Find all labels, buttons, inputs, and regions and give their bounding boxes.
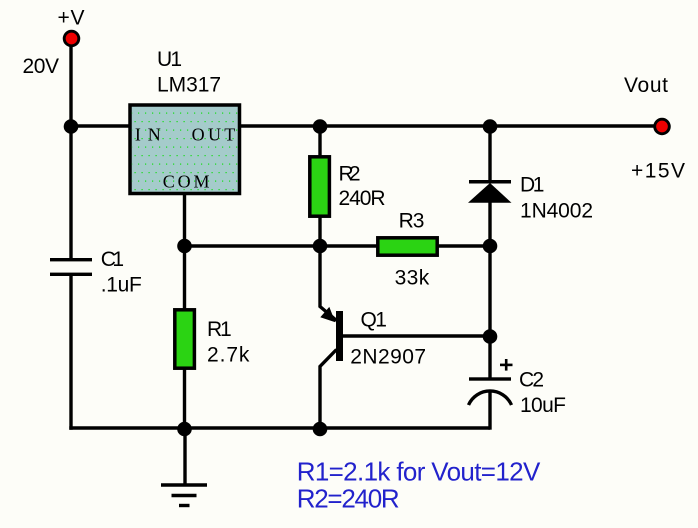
svg-text:C1: C1 — [101, 248, 124, 271]
svg-text:R2: R2 — [339, 163, 361, 186]
svg-text:2.7k: 2.7k — [207, 343, 250, 366]
capacitor C2 — [469, 359, 567, 417]
transistor Q1 2N2907 — [320, 307, 426, 368]
svg-text:R2=240R: R2=240R — [297, 484, 400, 514]
terminal +V — [64, 31, 79, 46]
svg-text:COM: COM — [163, 171, 210, 191]
resistor R2 — [310, 157, 386, 216]
svg-text:D1: D1 — [520, 174, 544, 197]
svg-text:+15V: +15V — [631, 160, 685, 183]
wire: U1 COM pin down to R1 — [183, 194, 186, 309]
node: base/C2 junction — [483, 329, 498, 344]
wire: Q1 collector lead to bottom rail — [320, 350, 337, 429]
wire: C2 bottom to bottom rail corner — [488, 390, 491, 430]
svg-text:Q1: Q1 — [361, 309, 387, 332]
svg-text:OUT: OUT — [192, 125, 236, 145]
wire: left column below C1 to bottom rail — [69, 276, 72, 430]
node: OUT/R2 junction — [313, 119, 328, 134]
resistor R3 — [378, 210, 437, 290]
svg-text:20V: 20V — [23, 55, 60, 78]
svg-text:240R: 240R — [339, 187, 386, 210]
wire: ground stem — [183, 428, 186, 485]
node: R2/Q1 emitter junction — [313, 239, 328, 254]
wire: D1 anode down through junctions to C2 top plate — [488, 202, 491, 378]
wire: top rail junction down to R2 — [318, 126, 321, 156]
wire: bottom rail — [69, 426, 490, 429]
svg-text:2N2907: 2N2907 — [350, 345, 426, 368]
node: R3/D1 junction — [483, 239, 498, 254]
svg-text:R3: R3 — [399, 210, 425, 233]
ground — [161, 485, 207, 506]
resistor R1 — [175, 310, 250, 368]
terminal Vout — [655, 119, 670, 134]
capacitor C1 — [50, 248, 142, 297]
svg-text:LM317: LM317 — [157, 74, 221, 97]
node: COM/R1 junction — [177, 239, 192, 254]
svg-text:33k: 33k — [395, 267, 430, 290]
op-amp U1 LM317 regulator box — [130, 48, 240, 194]
svg-text:C2: C2 — [519, 368, 544, 391]
wire: +V terminal to left column down through C1 top — [69, 45, 72, 259]
diode D1 1N4002 — [468, 174, 593, 223]
wire: Q1 base to diode column — [343, 334, 490, 337]
wire: top rail left segment into U1 IN pin — [71, 124, 130, 127]
svg-text:Vout: Vout — [624, 74, 668, 97]
svg-text:.1uF: .1uF — [101, 274, 142, 297]
svg-text:1N4002: 1N4002 — [520, 199, 593, 222]
svg-text:+V: +V — [58, 7, 85, 30]
node: collector/rail junction — [313, 422, 328, 437]
svg-text:R1=2.1k for Vout=12V: R1=2.1k for Vout=12V — [297, 457, 541, 487]
node: R1/ground junction — [177, 422, 192, 437]
node: OUT/D1 junction — [483, 119, 498, 134]
wire: top rail from U1 OUT pin to Vout terminal — [240, 124, 662, 127]
wire: Q1 emitter lead from middle rail — [320, 246, 337, 321]
wire: middle rail from COM column to R3 — [185, 244, 379, 247]
wire: R3 right lead to diode column — [438, 244, 490, 247]
note text — [297, 457, 541, 514]
svg-text:R1: R1 — [207, 318, 232, 341]
svg-text:IN: IN — [135, 125, 161, 145]
wire: R1 bottom to bottom rail — [183, 369, 186, 428]
wire: R2 bottom to middle rail junction — [318, 217, 321, 246]
wire: top rail junction down to D1 cathode — [488, 126, 491, 180]
svg-text:U1: U1 — [157, 48, 182, 71]
node: input junction — [64, 119, 79, 134]
svg-text:10uF: 10uF — [520, 394, 566, 417]
